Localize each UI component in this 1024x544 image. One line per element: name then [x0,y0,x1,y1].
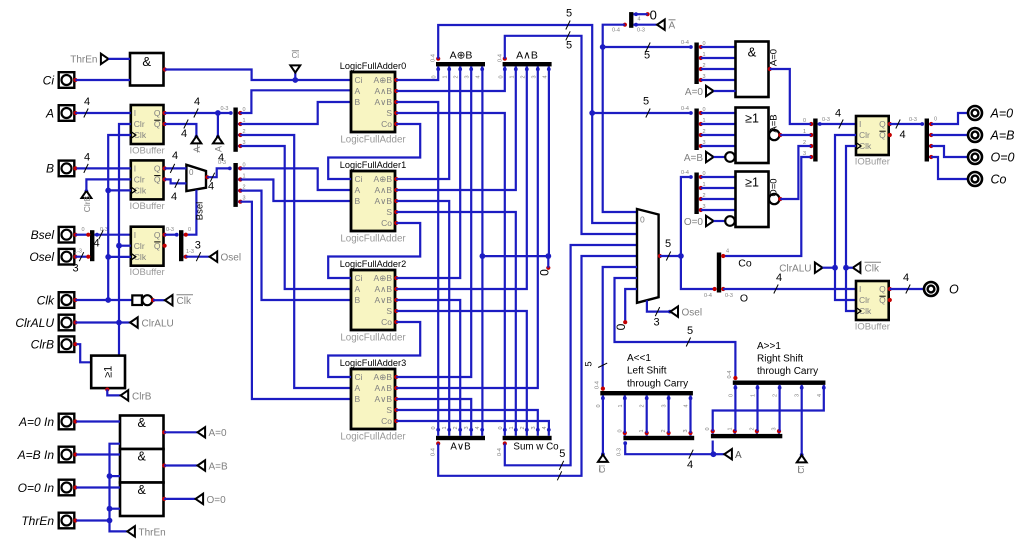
and gate U3 (A=0) [120,416,164,450]
splitter right shift out (0-3) [711,434,782,438]
wire Bsel port to combiner [75,234,88,236]
input port B [59,161,75,177]
wire [108,256,131,258]
svg-text:A=B In: A=B In [17,448,55,462]
wire Bsel mux out to B splitter [207,168,230,177]
svg-text:4: 4 [542,426,548,429]
wire adder2 A or B out [396,300,460,430]
wire to U5 [110,508,121,510]
svg-text:0: 0 [705,427,711,430]
svg-text:0-4: 0-4 [431,448,437,456]
svg-text:4: 4 [218,152,224,164]
input port A [59,105,75,121]
svg-text:&: & [142,54,151,69]
svg-text:I: I [134,230,136,240]
svg-text:Ci: Ci [597,465,607,473]
svg-text:0: 0 [188,227,191,233]
wire B2 to adder2.B [240,191,351,300]
wire B port to buffer [77,167,131,169]
svg-text:A: A [355,284,361,294]
junction const0 [545,253,551,259]
wire O5 to O=0 splitter [681,177,691,256]
svg-text:Q: Q [154,230,161,240]
tunnel O=0 (sink) [706,216,714,226]
splitter sel split [179,230,183,261]
splitter A xor B combine [436,62,485,66]
svg-text:0-3: 0-3 [100,227,108,233]
svg-text:1: 1 [442,426,448,429]
junction Ci net [292,77,298,83]
wire ClrB port to OR gate [77,344,92,362]
wire right shift out to A net [712,441,714,455]
tunnel A=B (sink) [706,152,714,162]
svg-text:0-4: 0-4 [681,106,689,112]
tunnel A (sink, shifters) [713,453,724,455]
svg-text:through Carry: through Carry [757,366,818,377]
wire A=B tunnel to bubble [714,156,725,158]
wire A1 to adder0.B [240,102,351,124]
svg-text:3: 3 [772,427,778,430]
wire mux in5 from left shift [603,267,637,389]
svg-text:4: 4 [93,238,99,250]
junction A net [215,110,221,116]
wire A=0 check bit1 to gate [701,57,736,59]
svg-text:Ci: Ci [355,174,363,184]
svg-text:Ci: Ci [43,73,55,87]
wire ClrALU port [75,321,130,323]
junction [107,473,113,479]
svg-text:4: 4 [172,150,178,162]
svg-text:A: A [669,21,676,32]
svg-text:4: 4 [476,75,482,78]
svg-text:ClrALU: ClrALU [15,316,54,330]
svg-text:4: 4 [84,151,90,163]
svg-text:1: 1 [509,426,515,429]
svg-text:0: 0 [614,323,628,330]
junction ClrALU right [832,265,838,271]
svg-text:B: B [46,162,54,176]
wire B Qn to mux in1 [165,179,187,183]
svg-text:IOBuffer: IOBuffer [129,201,164,212]
svg-text:0-3: 0-3 [822,117,830,123]
wire left shift bit3 [689,398,691,433]
svg-text:Left Shift: Left Shift [627,366,667,377]
svg-text:A∨B: A∨B [450,442,471,453]
svg-text:Clr: Clr [134,241,145,251]
wire right shift carry to Ci tunnel [801,388,803,456]
splitter A=B check [694,109,698,151]
svg-text:3: 3 [195,240,201,252]
svg-text:ThrEn: ThrEn [21,514,54,528]
svg-text:0-4: 0-4 [727,371,733,379]
svg-text:Clk: Clk [37,293,55,307]
wire ThrEn distribution [110,444,128,532]
svg-text:0-3: 0-3 [221,106,229,112]
wire adder2 A and B out [396,69,527,289]
wire mux select Osel [647,300,670,311]
svg-text:0: 0 [432,75,438,78]
splitter flags combine [813,119,817,162]
svg-text:A=0: A=0 [990,106,1014,120]
svg-text:A⊕B: A⊕B [374,174,393,184]
svg-text:4: 4 [194,96,200,108]
wire Abar tunnel to combiner [636,24,657,26]
tunnel ClrALU (sink right) [815,263,823,273]
junction ThrEn [107,518,113,524]
multiplexer U6 (op select) [637,209,659,303]
svg-text:1: 1 [443,75,449,78]
input port Bsel [59,227,75,243]
wire mux out (node O5) [660,255,681,257]
junction [107,506,113,512]
splitter Bsel/Osel combine [90,230,94,261]
wire adder1 S out [396,212,516,430]
wire carry Co1 to Ci2 [328,223,420,278]
wire carry Co2 to Ci3 [328,322,420,377]
wire Co to flag3 [723,157,811,256]
svg-text:0: 0 [498,426,504,429]
svg-text:A=B: A=B [684,153,704,164]
svg-text:S: S [386,405,392,415]
svg-text:3: 3 [653,317,659,329]
splitter A bits [233,108,237,152]
svg-text:0-4: 0-4 [497,448,503,456]
wire adder2 A xor B out [396,69,460,278]
wire stub to Ci tunnel [294,68,296,80]
svg-text:A⊕B: A⊕B [450,50,473,62]
svg-text:5: 5 [665,238,671,250]
svg-text:A∨B: A∨B [374,97,392,107]
wire combined sel bus to buffer [97,234,131,236]
svg-text:Sum w Co: Sum w Co [513,442,559,453]
and gate U1 [130,53,164,86]
wire U5 out to O=0 tunnel [164,498,195,500]
svg-text:Co: Co [991,172,1007,186]
svg-text:1: 1 [751,394,757,397]
svg-text:O=0 In: O=0 In [18,481,55,495]
full adder U12 (LogicFullAdder2) [351,270,395,330]
svg-text:A: A [45,106,54,120]
svg-text:3: 3 [464,426,470,429]
svg-text:0: 0 [640,215,645,225]
svg-text:A=0: A=0 [209,428,228,439]
svg-text:0: 0 [498,75,504,78]
junction Clk line [105,188,111,194]
splitter A and B combine [503,62,552,66]
wire O register Q to port [890,288,924,290]
wire A=0 check bit3 to gate [701,79,736,81]
wire Ci port to U1 [75,79,130,81]
svg-text:2: 2 [749,427,755,430]
svg-text:0-3: 0-3 [909,117,917,123]
full adder U13 (LogicFullAdder3) [351,369,395,429]
svg-text:1: 1 [509,75,515,78]
tunnel A=0 (source) [198,427,206,437]
svg-text:A: A [355,383,361,393]
svg-text:A∨B: A∨B [374,295,392,305]
and gate U4 (A=B) [120,449,164,483]
svg-text:4: 4 [208,181,214,193]
svg-text:0: 0 [81,227,84,233]
tunnel Clkbar (source) [165,295,173,305]
output port A=B [968,128,982,142]
svg-text:0: 0 [650,8,657,23]
svg-text:1-3: 1-3 [186,249,194,255]
svg-text:Clk: Clk [177,296,192,307]
wire to A tunnel [217,113,219,136]
svg-text:Ci: Ci [796,465,806,473]
svg-text:1: 1 [618,404,624,407]
wire left shift bit2 [667,398,669,433]
wire ClrALU to register Clr pins [835,135,856,300]
wire ClrALU tunnel [823,267,836,269]
wire Osel port to combiner [75,256,88,258]
svg-text:Bsel: Bsel [31,228,55,242]
svg-text:0-4: 0-4 [595,381,601,389]
tunnel Ci (sink, right shift) [800,453,804,457]
svg-text:A=B: A=B [768,114,779,132]
tunnel ThrEn (source top) [101,54,109,64]
wire Clk port [75,299,132,301]
svg-text:IOBuffer: IOBuffer [855,157,890,168]
svg-text:&: & [138,416,147,430]
svg-text:Co: Co [738,258,752,270]
wire right shift bit0 [734,388,736,431]
svg-text:A=0: A=0 [685,87,704,98]
svg-text:0-4: 0-4 [681,170,689,176]
svg-text:5: 5 [687,325,693,337]
svg-text:A=B: A=B [209,461,229,472]
svg-text:0-4: 0-4 [497,54,503,62]
svg-text:0-3: 0-3 [637,28,645,34]
svg-text:LogicFullAdder: LogicFullAdder [340,234,406,245]
svg-text:ThrEn: ThrEn [70,55,97,66]
svg-text:A=B: A=B [990,128,1015,142]
constant 0 (bit4 of not-A bus) [646,12,650,16]
register O (IOBuffer) [856,281,889,320]
svg-text:O: O [949,282,959,296]
wire ThrEn port [76,519,109,521]
svg-text:A=0 In: A=0 In [18,415,54,429]
tunnel A=0 (sink) [706,86,714,96]
wire adder3 Co to Sum pin4 [396,421,549,430]
svg-text:A: A [735,450,742,461]
svg-text:A∨B: A∨B [374,394,392,404]
wire right shift wraparound bit4 [713,388,824,431]
svg-text:≥1: ≥1 [103,366,115,378]
svg-text:2: 2 [520,426,526,429]
svg-text:4: 4 [171,191,177,203]
svg-text:ClrALU: ClrALU [779,264,811,275]
svg-text:5: 5 [566,40,572,52]
multiplexer Bsel [186,165,206,191]
wire U4 out to A=B tunnel [164,464,197,466]
svg-text:S: S [386,207,392,217]
svg-text:Osel: Osel [682,308,703,319]
svg-text:LogicFullAdder: LogicFullAdder [340,432,406,443]
wire A=0 tunnel to gate [714,90,736,92]
wire B Q to mux in0 [165,167,187,169]
wire adder0 A xor B out [396,69,438,80]
wire O bus to register [723,288,856,290]
wire [119,245,131,247]
svg-text:0-4: 0-4 [612,28,620,34]
input port Clk [59,292,75,308]
wire to Co port [931,157,968,179]
svg-text:Clk: Clk [865,264,880,275]
svg-text:5: 5 [584,361,595,366]
wire mux in7 from const 0 [625,289,637,322]
wire A=B check bit1 to gate [701,123,736,125]
svg-text:A∧B: A∧B [374,185,392,195]
svg-text:B: B [355,394,361,404]
wire Bsel select [186,190,197,235]
output port O=0 [968,150,982,164]
tunnel ClrB (sink at B register) [85,189,89,193]
svg-text:0: 0 [934,117,937,123]
or gate U9 (O=0 flag) [736,172,769,228]
junction ClrALU [116,320,122,326]
svg-text:Bsel: Bsel [195,202,206,220]
wire O=0 In [76,486,120,488]
svg-text:3: 3 [662,404,668,407]
svg-text:Co: Co [381,119,392,129]
wire mux in6 from right shift [615,278,736,378]
input port A=0 In [59,414,75,430]
splitter const/Abar combine [629,12,633,28]
svg-text:3: 3 [531,426,537,429]
svg-text:LogicFullAdder1: LogicFullAdder1 [340,160,406,170]
svg-text:0: 0 [431,426,437,429]
tunnel Ci (inverted, top) [290,65,300,72]
wire flags Q to out splitter [890,123,923,125]
svg-text:0: 0 [596,404,602,407]
wire A0 to adder0.A [240,90,351,113]
wire B3 to adder3.B [240,202,351,399]
wire adder0 S out [396,113,505,430]
svg-text:S: S [386,108,392,118]
input port Ci [59,72,75,88]
svg-text:Clr: Clr [859,295,870,305]
svg-text:Osel: Osel [29,250,54,264]
or gate U2 (ClrB | ClrALU) [91,356,125,389]
tunnel ThrEn (sink) [127,526,135,536]
wire left shift out to A net [625,443,713,454]
svg-text:2: 2 [453,426,459,429]
and gate U5 (O=0) [120,483,164,517]
wire A and B pin4 column [548,69,550,256]
wire A=0 check bit0 to gate [701,46,736,48]
wire not-A bus (node nA) [603,25,637,212]
svg-text:O=0: O=0 [768,178,779,196]
wire left shift bit0 [624,398,626,433]
splitter B bits [233,163,237,207]
wire A=B In [76,453,120,455]
wire O=0 check bit2 to gate [701,198,736,200]
svg-text:1-3: 1-3 [74,249,82,255]
wire adder1 A and B out [396,69,516,190]
svg-text:O: O [740,293,748,305]
svg-text:2: 2 [661,429,667,432]
input port ClrB [59,336,75,352]
wire Sum out bus (node Sum) [505,245,637,465]
svg-text:A>>1: A>>1 [757,341,781,352]
svg-text:A∧B: A∧B [516,50,538,62]
wire OR out to ClrB tunnel [107,390,120,396]
wire adder3 A xor B out [396,69,471,377]
svg-text:4: 4 [899,129,905,141]
tunnel O=0 (source) [196,494,204,504]
svg-text:1: 1 [639,429,645,432]
svg-text:Ci: Ci [355,372,363,382]
svg-text:0-4: 0-4 [681,40,689,46]
svg-text:5: 5 [643,96,649,108]
output port A=0 [968,106,982,120]
tunnel A (source) [216,135,220,139]
splitter left shift in (0-4) [600,391,693,395]
svg-text:B: B [355,97,361,107]
svg-text:4: 4 [84,96,90,108]
wire A xor B bus (node AxorB) [438,25,637,223]
svg-text:4: 4 [542,75,548,78]
svg-text:A<<1: A<<1 [627,353,651,364]
svg-text:4: 4 [776,272,782,284]
splitter flags out split [925,119,929,162]
svg-text:Q: Q [154,164,161,174]
svg-text:Q: Q [154,108,161,118]
svg-text:IOBuffer: IOBuffer [129,267,164,278]
svg-text:A⊕B: A⊕B [374,75,393,85]
svg-text:2: 2 [773,394,779,397]
svg-text:Ci: Ci [355,75,363,85]
junction O5 [678,253,684,259]
wire U3 out to A=0 tunnel [164,431,197,433]
wire carry Co0 to Ci1 [328,124,420,179]
svg-text:Ci: Ci [355,273,363,283]
svg-text:S: S [386,306,392,316]
wire A=B check bit3 to gate [701,145,736,147]
wire O=0 check bit1 to gate [701,187,736,189]
svg-text:Q: Q [879,284,886,294]
wire to A=0 port [931,113,968,124]
constant 0 (bit4 of buses) [546,266,550,270]
svg-text:ClrALU: ClrALU [142,318,174,329]
wire A=B check bit0 to gate [701,112,736,114]
wire const to combiner [636,13,648,15]
svg-text:O=0: O=0 [684,217,704,228]
wire to O=0 port [931,146,968,157]
splitter left shift out (0-3) [623,436,694,440]
svg-text:4: 4 [181,128,187,140]
svg-text:3: 3 [531,75,537,78]
svg-text:≥1: ≥1 [745,112,759,126]
tunnel Abar (source) [195,135,199,139]
inverter on Clk [132,295,142,305]
wire adder0 A or B out [396,102,438,430]
svg-text:0: 0 [617,429,623,432]
wire right shift bit2 [778,388,780,431]
svg-text:Co: Co [381,416,392,426]
wire sel Q to splitter [165,234,177,236]
svg-text:0-4: 0-4 [704,293,712,299]
svg-text:ThrEn: ThrEn [139,527,166,538]
wire right shift bit1 [756,388,758,431]
splitter O=0 check [694,173,698,215]
svg-text:Clr: Clr [134,119,145,129]
svg-text:Osel: Osel [221,253,242,264]
wire Clk vertical distribution line [108,135,131,300]
svg-text:Right Shift: Right Shift [757,354,803,365]
